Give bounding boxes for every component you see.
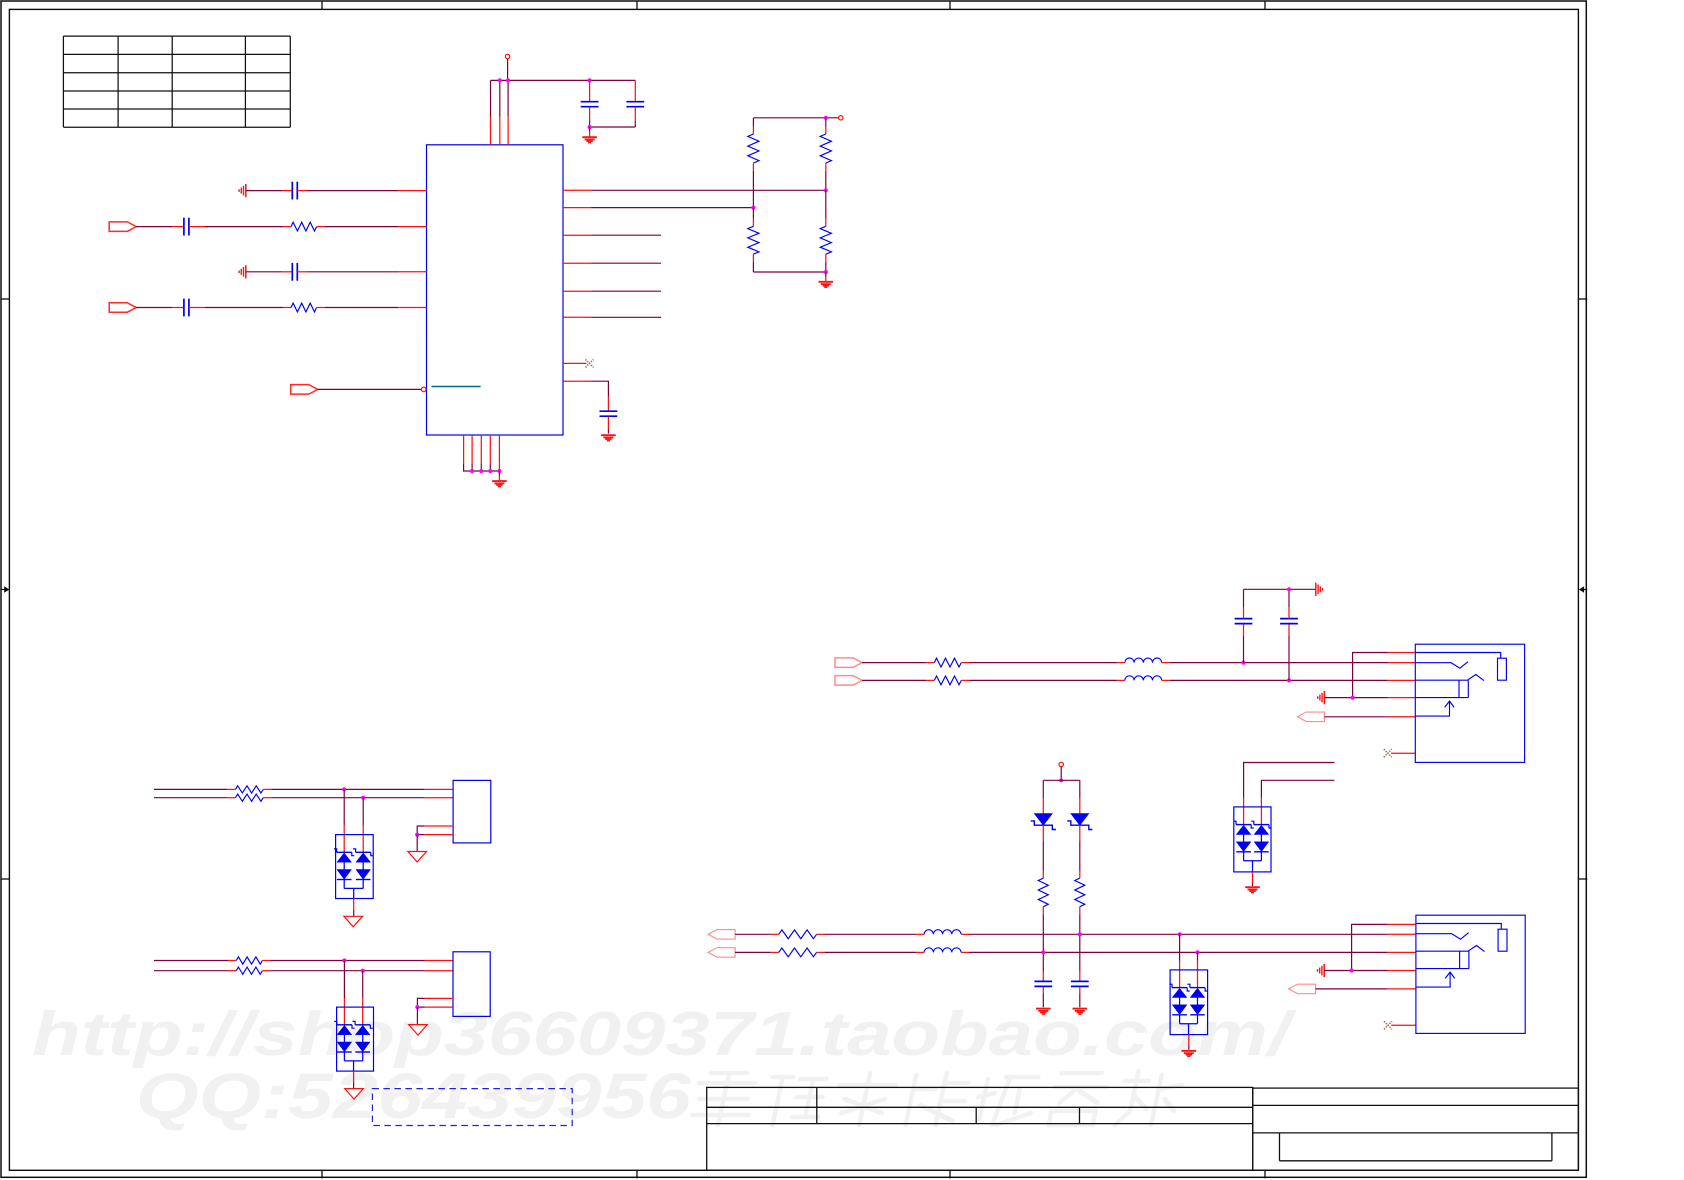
ground G1 bbox=[589, 127, 591, 132]
U1 no-connect pin bbox=[563, 362, 587, 364]
ESD array D5 leads bbox=[343, 789, 345, 825]
connector J3 pin stub bbox=[425, 788, 454, 790]
wire bbox=[205, 226, 283, 228]
wire jack J1 pin1 bbox=[1353, 653, 1388, 698]
analog ground AG2 bbox=[245, 265, 247, 278]
capacitor C6 bbox=[172, 307, 184, 309]
capacitor C5 bbox=[282, 271, 292, 273]
ground bbox=[1073, 1008, 1088, 1010]
port MIC-IN2 bbox=[708, 948, 735, 958]
port MIC1 bbox=[109, 222, 136, 232]
wire bbox=[752, 171, 754, 208]
wire bbox=[154, 797, 227, 799]
jack J1 pin stub bbox=[1388, 662, 1416, 664]
U1 pin stub bbox=[398, 190, 427, 192]
ground G4 bbox=[825, 272, 827, 277]
U1 pin stub bbox=[398, 271, 427, 273]
wire bbox=[592, 381, 609, 396]
connector J4 bbox=[453, 952, 490, 1017]
wire jack J2 pin1 bbox=[1352, 924, 1388, 970]
ground triangle G8 bbox=[416, 835, 418, 852]
resistor R11 bbox=[771, 933, 779, 935]
jack J1 no-connect pin bbox=[1391, 752, 1415, 754]
wire bbox=[825, 933, 917, 935]
wire J4 pins 3-4 bbox=[417, 998, 424, 1007]
resistor R1 bbox=[283, 226, 291, 228]
U1 bottom pins (5) bbox=[463, 435, 465, 463]
U1 pin stub bbox=[398, 226, 427, 228]
jack J1 pin5 stub bbox=[1388, 716, 1416, 718]
title block left section bbox=[707, 1087, 1253, 1170]
U1 pin to C7 bbox=[563, 380, 592, 382]
wire bbox=[154, 788, 227, 790]
wire stub A bbox=[1244, 763, 1335, 798]
resistor R7 bbox=[926, 662, 934, 664]
wire bbox=[592, 234, 662, 236]
resistor R8 bbox=[926, 679, 934, 681]
inductor L1 bbox=[1117, 662, 1125, 664]
ground triangle G10 bbox=[416, 1007, 418, 1025]
U1 top pins (3) bbox=[490, 117, 492, 145]
capacitor C10 bbox=[1042, 972, 1044, 981]
connector J4 pin stub bbox=[425, 960, 454, 962]
wire bbox=[1042, 825, 1044, 841]
wire bbox=[308, 190, 399, 192]
ESD array D5 bbox=[343, 835, 345, 853]
connector J3 pin stub bbox=[425, 797, 454, 799]
wire bbox=[1170, 679, 1388, 681]
analog ground AG4 bbox=[1323, 691, 1325, 704]
inductor L2 bbox=[1117, 679, 1125, 681]
resistor R12 bbox=[771, 951, 779, 953]
wire bbox=[271, 797, 424, 799]
wire zener bus bbox=[1043, 779, 1080, 781]
jack J2 pin stub bbox=[1388, 951, 1416, 953]
wire to divider bbox=[592, 189, 826, 191]
analog ground AG5 bbox=[1323, 964, 1325, 977]
resistor R4 (right top) bbox=[825, 118, 827, 127]
resistor R3 (left top) bbox=[752, 118, 754, 127]
wire bbox=[205, 307, 283, 309]
title block right section bbox=[1253, 1088, 1579, 1170]
resistor R2 bbox=[283, 307, 291, 309]
capacitor C7 bbox=[607, 397, 609, 411]
wire bottom bus bbox=[464, 463, 500, 471]
ESD array D6 leads bbox=[343, 961, 345, 999]
zener diode D3 bbox=[1079, 780, 1081, 798]
wire bbox=[969, 951, 1388, 953]
wire to divider bbox=[592, 207, 754, 209]
U1 inverted pin bubble bbox=[421, 387, 426, 392]
power terminal mid bbox=[1059, 762, 1063, 766]
ESD array D1 bbox=[1243, 807, 1245, 825]
wire bbox=[1042, 952, 1044, 971]
wire bbox=[735, 933, 771, 935]
resistor R16 bbox=[228, 970, 236, 972]
jack J1 (headphone) bbox=[1415, 653, 1500, 659]
wire cap bottom bus bbox=[590, 126, 636, 128]
wire bbox=[308, 271, 399, 273]
resistor R5 (left bottom) bbox=[752, 208, 754, 219]
ground G2 bbox=[601, 434, 616, 436]
wire cap top bus bbox=[1244, 588, 1316, 590]
border zone ticks right bbox=[1578, 298, 1587, 300]
wire bbox=[318, 388, 422, 390]
connector J4 pin stub bbox=[425, 970, 454, 972]
jack J1 pin stub bbox=[1388, 679, 1416, 681]
wire J3 pins 3-4 bbox=[417, 826, 424, 835]
jack J2 no-connect pin bbox=[1391, 1024, 1416, 1026]
power terminal right bbox=[839, 116, 843, 120]
port MIC-IN1 bbox=[708, 930, 735, 940]
border zone ticks bottom bbox=[321, 1170, 323, 1178]
jack J2 (microphone) bbox=[1416, 924, 1501, 930]
capacitor C4 bbox=[172, 226, 184, 228]
border mid arrow right bbox=[1582, 589, 1587, 591]
wire bbox=[592, 262, 662, 264]
resistor R10 bbox=[1079, 871, 1081, 879]
U1 right pin stub bbox=[563, 290, 592, 292]
revision table bbox=[63, 36, 290, 127]
U1 pin stub bbox=[398, 307, 427, 309]
wire bbox=[1042, 914, 1044, 952]
border zone ticks top bbox=[321, 1, 323, 9]
wire bbox=[136, 307, 172, 309]
wire bbox=[969, 662, 1117, 664]
svg-text:http://shop36609371.taobao.com: http://shop36609371.taobao.com/ bbox=[32, 1000, 1297, 1069]
port HP-SENSE bbox=[1297, 712, 1324, 722]
port HPR bbox=[835, 658, 862, 668]
wire bbox=[154, 970, 228, 972]
U1 pin underline (active-low label bar) bbox=[431, 386, 480, 388]
resistor R13 bbox=[227, 788, 235, 790]
capacitor C9 bbox=[1288, 636, 1290, 680]
wire stub B bbox=[1261, 780, 1334, 798]
wire bbox=[592, 316, 662, 318]
wire divider top bus bbox=[753, 117, 838, 119]
wire divider bottom bus bbox=[753, 271, 825, 273]
U1 right pin stub bbox=[563, 316, 592, 318]
U1 right pin row2 stub bbox=[563, 207, 592, 209]
jack J2 pin stub bbox=[1388, 933, 1416, 935]
wire bbox=[592, 290, 662, 292]
wire bbox=[1079, 825, 1081, 841]
U1 right pin stub bbox=[563, 262, 592, 264]
border zone ticks left bbox=[1, 298, 9, 300]
wire bbox=[246, 190, 282, 192]
ground triangle G7 bbox=[353, 899, 355, 911]
wire bbox=[154, 960, 228, 962]
ESD array D4 bbox=[1179, 970, 1181, 988]
svg-text:QQ:526439956: QQ:526439956 bbox=[136, 1060, 692, 1132]
ESD array D4 leads bbox=[1179, 934, 1181, 961]
wire bbox=[136, 226, 172, 228]
capacitor C3 bbox=[282, 190, 292, 192]
wire bbox=[1170, 662, 1388, 664]
port EN bbox=[291, 385, 318, 395]
wire bbox=[1324, 716, 1387, 718]
wire bbox=[325, 226, 398, 228]
capacitor C8 bbox=[1243, 636, 1245, 663]
wire bbox=[862, 679, 926, 681]
op IC U1 body bbox=[427, 145, 564, 435]
border mid arrow left bbox=[1, 589, 6, 591]
jack J2 pin4 stub bbox=[1388, 970, 1416, 972]
resistor R9 bbox=[1042, 871, 1044, 879]
zener diode D2 bbox=[1042, 780, 1044, 798]
connector J3 bbox=[453, 780, 491, 843]
junction dots on power bus bbox=[498, 78, 502, 82]
wire bbox=[862, 662, 926, 664]
port HPL bbox=[835, 676, 862, 686]
wire bbox=[1324, 970, 1388, 972]
resistor R6 (right bottom) bbox=[825, 190, 827, 218]
inductor L4 bbox=[916, 951, 924, 953]
wire bbox=[969, 679, 1117, 681]
capacitor C11 bbox=[1079, 972, 1081, 981]
ground bbox=[1036, 1008, 1051, 1010]
wire bbox=[825, 171, 827, 190]
capacitor C1 bbox=[589, 80, 591, 101]
wire bbox=[271, 788, 424, 790]
port MIC-SENSE bbox=[1289, 984, 1316, 994]
ground triangle G9 bbox=[353, 1071, 355, 1082]
resistor R15 bbox=[228, 960, 236, 962]
capacitor C2 bbox=[634, 80, 636, 101]
ESD array D6 bbox=[343, 1007, 345, 1025]
wire bbox=[270, 970, 424, 972]
power terminal VCC top bbox=[507, 59, 509, 81]
wire bbox=[1316, 988, 1388, 990]
inductor L3 bbox=[916, 933, 924, 935]
wire bbox=[825, 951, 917, 953]
analog ground AG1 bbox=[245, 184, 247, 197]
wire bbox=[1324, 697, 1387, 699]
jack J2 pin5 stub bbox=[1388, 988, 1416, 990]
ground G3 bbox=[498, 471, 500, 476]
wire bbox=[325, 307, 398, 309]
jack J1 pin4 stub bbox=[1388, 697, 1416, 699]
wire bbox=[246, 271, 282, 273]
ground G5 bbox=[1252, 872, 1254, 883]
wire power bus bbox=[491, 79, 636, 81]
dashed note box bbox=[372, 1089, 572, 1126]
U1 right pin row1 stub bbox=[563, 189, 592, 191]
wire bbox=[969, 933, 1388, 935]
ground G6 bbox=[1188, 1035, 1190, 1046]
resistor R14 bbox=[227, 797, 235, 799]
U1 right pin stub bbox=[563, 234, 592, 236]
wire bbox=[735, 951, 771, 953]
analog ground AG3 bbox=[1315, 583, 1317, 596]
port MIC2 bbox=[109, 303, 136, 313]
wire bbox=[270, 960, 424, 962]
